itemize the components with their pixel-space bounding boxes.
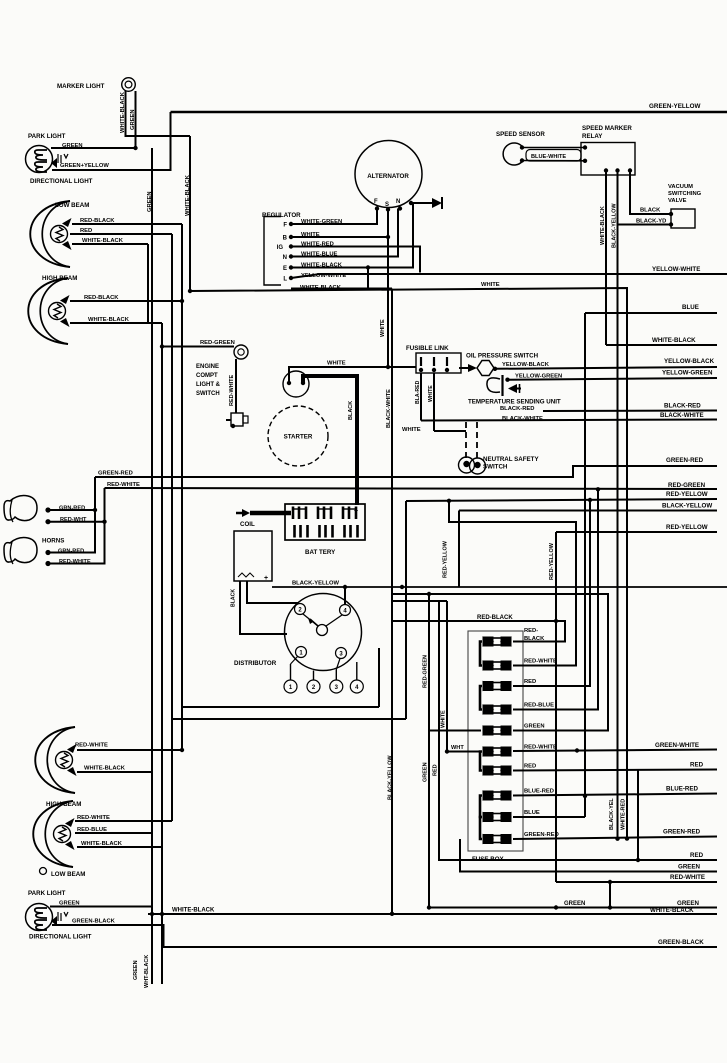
node solenoid t1 xyxy=(287,381,291,385)
node f4 junction xyxy=(596,487,600,491)
node black-yellow junction 345 xyxy=(343,585,347,589)
svg-text:SWITCHING: SWITCHING xyxy=(668,191,702,197)
node alternator N xyxy=(398,206,402,210)
fuse F5 xyxy=(483,726,493,735)
node regulator N xyxy=(289,254,293,258)
svg-text:WHITE-BLACK: WHITE-BLACK xyxy=(82,238,124,244)
node horn2 t2 xyxy=(45,561,50,566)
svg-text:RED-GREEN: RED-GREEN xyxy=(423,655,429,688)
oil pressure switch xyxy=(477,361,494,376)
svg-text:WHITE: WHITE xyxy=(327,361,346,367)
svg-text:GREEN-WHITE: GREEN-WHITE xyxy=(655,742,699,749)
svg-text:DIRECTIONAL LIGHT: DIRECTIONAL LIGHT xyxy=(30,178,93,185)
svg-text:RED: RED xyxy=(524,679,536,685)
wire v460 green xyxy=(460,839,717,872)
headlight low beam xyxy=(30,201,70,267)
svg-text:WHT-BLACK: WHT-BLACK xyxy=(144,955,150,988)
svg-text:DISTRIBUTOR: DISTRIBUTOR xyxy=(234,660,277,667)
svg-text:GREEN: GREEN xyxy=(147,191,153,212)
svg-text:WHITE: WHITE xyxy=(380,319,386,337)
wire red-white bl2 xyxy=(75,820,172,822)
node regulator E xyxy=(289,265,293,269)
svg-text:YELLOW-BLACK: YELLOW-BLACK xyxy=(664,358,715,365)
engine compt light xyxy=(234,345,248,359)
node v638 junction xyxy=(636,858,640,862)
wire e-row tie xyxy=(367,268,369,291)
wire coil to distributor 2 xyxy=(247,581,299,603)
node sensor t1 xyxy=(520,145,524,149)
svg-text:BLACK-YELLOW: BLACK-YELLOW xyxy=(388,755,394,800)
wire grn-red horn1 xyxy=(48,509,95,511)
node relay out2 xyxy=(615,168,619,172)
wire dashed nss 2 xyxy=(476,422,478,458)
coil wire thick xyxy=(250,511,291,516)
fuse F9 xyxy=(483,813,493,822)
node black-yellow junction 402 xyxy=(400,585,404,589)
wire bla-red link xyxy=(420,373,422,421)
wire f5 left xyxy=(429,730,481,732)
svg-text:GREEN-RED: GREEN-RED xyxy=(98,471,133,477)
wire green vertical 429 xyxy=(429,594,717,908)
node red-yellow v590 xyxy=(588,498,592,502)
svg-text:HORNS: HORNS xyxy=(42,538,64,545)
wire cap1 xyxy=(290,664,292,680)
svg-text:RED-BLUE: RED-BLUE xyxy=(77,827,107,833)
wire red-black high beam xyxy=(70,300,182,302)
wire black-yel to valve xyxy=(618,224,672,226)
svg-text:VACUUM: VACUUM xyxy=(668,184,693,190)
wire box inner xyxy=(182,706,379,708)
wire v638 xyxy=(637,770,639,860)
svg-text:BLACK-YEL: BLACK-YEL xyxy=(609,798,615,830)
node link t1 xyxy=(419,368,423,372)
wire black-yellow coil bus xyxy=(272,586,727,588)
neutral safety switch xyxy=(459,457,475,473)
wire white-green F xyxy=(291,209,377,225)
fuse F3 xyxy=(483,682,493,691)
wire box outer xyxy=(172,718,406,720)
wire fuse jumper 9-10 xyxy=(480,817,482,839)
wire green bottom xyxy=(50,906,152,908)
svg-text:B: B xyxy=(283,236,288,242)
node solenoid t2 xyxy=(301,381,305,385)
wire f3 stub xyxy=(513,500,590,686)
wire green-black bottom xyxy=(52,925,717,947)
svg-text:RED-YELLOW: RED-YELLOW xyxy=(443,540,449,578)
svg-text:GREEN: GREEN xyxy=(564,901,585,907)
park light lamp bottom xyxy=(26,904,53,931)
svg-text:BLACK-YELLOW: BLACK-YELLOW xyxy=(292,581,340,587)
wire black-yellow relay xyxy=(617,171,619,840)
distributor terminal 4 internal xyxy=(340,605,351,616)
node red-yellow v449 xyxy=(447,499,451,503)
node wb junction 162 xyxy=(160,912,164,916)
svg-text:RED: RED xyxy=(690,762,704,769)
svg-text:LOW BEAM: LOW BEAM xyxy=(51,871,85,878)
node horn junction red-wht xyxy=(102,520,106,524)
node horn junction grn-red xyxy=(93,508,97,512)
svg-text:WHITE-BLACK: WHITE-BLACK xyxy=(600,206,606,245)
svg-text:RED-WHITE: RED-WHITE xyxy=(229,375,235,406)
node valve t2 xyxy=(669,222,673,226)
wire blue bus xyxy=(585,312,717,314)
wire v447 xyxy=(446,601,448,752)
svg-text:SPEED SENSOR: SPEED SENSOR xyxy=(496,131,545,138)
svg-text:ALTERNATOR: ALTERNATOR xyxy=(367,173,409,180)
svg-text:BLACK-RED: BLACK-RED xyxy=(500,406,534,412)
wire red-white switch xyxy=(235,359,237,413)
fusible link box xyxy=(416,353,461,373)
wire box right edge xyxy=(405,501,407,719)
node green 556 xyxy=(554,905,558,909)
svg-text:WHT: WHT xyxy=(451,745,464,751)
wire red-yellow 532 bus xyxy=(556,531,717,533)
wire white-blue N xyxy=(291,209,398,257)
wire distributor 4 up xyxy=(344,587,346,605)
svg-text:STARTER: STARTER xyxy=(284,434,313,441)
wire white-black bl1 xyxy=(77,771,152,773)
cap circle 1 xyxy=(284,680,297,693)
wire f4 stub xyxy=(513,489,598,709)
node oil switch terminal xyxy=(493,367,497,371)
svg-text:WHITE-BLACK: WHITE-BLACK xyxy=(81,841,123,847)
svg-text:YELLOW-WHITE: YELLOW-WHITE xyxy=(652,266,700,273)
wire white-black from marker light xyxy=(126,91,191,136)
wire red-black low beam xyxy=(72,223,182,225)
node horn1 t2 xyxy=(45,519,50,524)
alternator U1 xyxy=(355,141,422,208)
wire h601 xyxy=(392,600,447,602)
svg-text:+: + xyxy=(354,508,358,515)
wire black coil to distributor xyxy=(240,581,287,634)
wire green-yellow from lamp xyxy=(52,112,171,170)
node B junction xyxy=(386,235,390,239)
node link t2 xyxy=(432,368,436,372)
node nss t2 xyxy=(474,462,480,468)
node sensor t2 xyxy=(520,158,524,162)
svg-text:PARK LIGHT: PARK LIGHT xyxy=(28,133,66,140)
wire f6 row xyxy=(447,751,481,753)
svg-text:RED-WHITE: RED-WHITE xyxy=(75,743,108,749)
node nss t1 xyxy=(463,461,469,467)
svg-text:GREEN-BLACK: GREEN-BLACK xyxy=(72,919,116,925)
node green 429 junction xyxy=(427,592,431,596)
svg-text:E: E xyxy=(283,266,287,272)
svg-text:F: F xyxy=(374,199,378,205)
wire cap1 internal xyxy=(291,656,299,664)
wire red-black bus xyxy=(392,621,565,642)
node red-green tap xyxy=(160,344,164,348)
fuse F7 xyxy=(483,766,493,775)
svg-text:+: + xyxy=(264,575,268,582)
svg-text:LIGHT &: LIGHT & xyxy=(196,382,221,388)
svg-text:BLUE-WHITE: BLUE-WHITE xyxy=(531,154,566,160)
wire f10 stub xyxy=(513,837,717,840)
svg-text:WHITE-BLACK: WHITE-BLACK xyxy=(185,174,191,216)
svg-text:GREEN-RED: GREEN-RED xyxy=(666,457,704,464)
node alternator F xyxy=(375,206,379,210)
wire green from marker light xyxy=(135,91,137,148)
svg-text:GREEN: GREEN xyxy=(133,960,139,980)
svg-text:WHITE-BLACK: WHITE-BLACK xyxy=(650,907,694,914)
node regulator IG xyxy=(289,244,293,248)
svg-text:REGULATOR: REGULATOR xyxy=(262,212,301,219)
svg-text:N: N xyxy=(396,199,400,205)
svg-text:F: F xyxy=(283,223,287,229)
svg-text:SWITCH: SWITCH xyxy=(196,391,220,397)
svg-text:GREEN-RED: GREEN-RED xyxy=(524,832,559,838)
wire green park light xyxy=(51,147,136,149)
svg-text:BLUE: BLUE xyxy=(682,304,699,311)
svg-text:WHITE-BLACK: WHITE-BLACK xyxy=(172,908,215,914)
svg-text:RED-YELLOW: RED-YELLOW xyxy=(666,491,708,498)
node regulator B xyxy=(289,235,293,239)
svg-text:BLA-RED: BLA-RED xyxy=(415,380,421,404)
svg-text:RED: RED xyxy=(524,764,536,770)
wire rotor to 2 xyxy=(303,614,318,626)
wire red-white bl1 xyxy=(77,749,182,751)
wire white-black link low-high xyxy=(147,244,149,323)
svg-text:RED-BLUE: RED-BLUE xyxy=(524,703,554,709)
svg-text:TEMPERATURE SENDING UNIT: TEMPERATURE SENDING UNIT xyxy=(468,399,561,406)
wire f8 stub xyxy=(513,794,717,796)
wire white vertical S xyxy=(387,210,389,368)
distributor body xyxy=(285,594,362,671)
svg-text:WHITE: WHITE xyxy=(402,427,421,433)
wire white-black low beam xyxy=(72,243,148,245)
svg-text:GREEN-RED: GREEN-RED xyxy=(663,829,701,836)
node f6 left xyxy=(445,749,449,753)
svg-text:GREEN: GREEN xyxy=(677,900,700,907)
wire grn-red horns xyxy=(48,477,95,553)
wire red-yellow bus xyxy=(406,499,717,501)
distributor terminal 1 internal xyxy=(296,647,307,658)
svg-text:RED-GREEN: RED-GREEN xyxy=(200,340,235,346)
svg-text:NEUTRAL SAFETY: NEUTRAL SAFETY xyxy=(483,456,539,463)
node junction green/park xyxy=(133,146,137,150)
node green junction 429b xyxy=(427,905,431,909)
svg-text:RED-GREEN: RED-GREEN xyxy=(668,482,706,489)
wire red-wht horn1 xyxy=(48,521,105,523)
wire v439 xyxy=(439,601,717,860)
wire cap2 xyxy=(313,671,315,681)
svg-text:RED-WHITE: RED-WHITE xyxy=(524,745,557,751)
svg-text:BLACK: BLACK xyxy=(231,589,237,607)
svg-text:BLACK: BLACK xyxy=(348,401,354,420)
wire black-white bus xyxy=(421,420,717,421)
wire white bus xyxy=(190,288,627,839)
wire yellow-white L bus xyxy=(291,274,727,278)
speed sensor xyxy=(503,143,523,165)
distributor terminal 3 internal xyxy=(336,648,347,659)
node E junction xyxy=(366,265,370,269)
svg-text:IG: IG xyxy=(277,245,284,251)
node blue crossing f8 xyxy=(583,794,587,798)
svg-text:BLACK-YELLOW: BLACK-YELLOW xyxy=(612,203,618,248)
node relay in1 xyxy=(583,145,587,149)
node relay out1 xyxy=(604,168,608,172)
blue-white cable box xyxy=(526,150,581,162)
svg-text:RED-YELLOW: RED-YELLOW xyxy=(666,524,708,531)
temperature sending unit xyxy=(487,378,500,393)
node v610 top xyxy=(608,880,612,884)
svg-text:RED-WHITE: RED-WHITE xyxy=(670,874,705,881)
svg-text:ENGINE: ENGINE xyxy=(196,364,219,370)
distributor terminal 2 internal xyxy=(295,604,306,615)
wire sensor to relay top xyxy=(522,147,585,149)
wire red-blue bl2 xyxy=(75,832,152,834)
wire v459 xyxy=(458,511,460,588)
node red-black junction xyxy=(554,619,558,623)
park light lamp xyxy=(26,146,53,173)
node link t3 xyxy=(445,368,449,372)
wire box inner right xyxy=(378,648,380,707)
node horn1 t1 xyxy=(45,507,50,512)
wire yellow-black bus xyxy=(494,367,717,369)
node temp unit terminal xyxy=(505,378,509,382)
headlight bottom low xyxy=(35,727,75,793)
svg-text:SPEED MARKER: SPEED MARKER xyxy=(582,125,632,132)
wire red-white bus xyxy=(105,488,718,489)
fuse F4 xyxy=(483,705,493,714)
svg-text:COIL: COIL xyxy=(240,521,255,528)
svg-text:L: L xyxy=(283,277,287,283)
svg-text:WHITE-BLACK: WHITE-BLACK xyxy=(88,317,130,323)
wire white-black vertical to white line xyxy=(189,136,191,291)
svg-text:S: S xyxy=(385,202,389,208)
svg-text:RED: RED xyxy=(690,852,704,859)
node alternator S xyxy=(386,207,390,211)
starter motor xyxy=(268,406,328,466)
wire yellow-green bus xyxy=(508,378,718,380)
node f10 junction 2 xyxy=(625,836,629,840)
cap circle 3 xyxy=(330,680,343,693)
speed marker relay box xyxy=(581,143,635,176)
wire v556 xyxy=(555,532,557,882)
node white line junction xyxy=(188,289,192,293)
wire sensor to relay bottom xyxy=(522,160,585,162)
wire white-black high beam xyxy=(70,322,162,324)
horn 1 xyxy=(4,496,37,521)
svg-text:BLACK-WHITE: BLACK-WHITE xyxy=(660,412,704,419)
svg-text:GREEN: GREEN xyxy=(524,724,545,730)
wire red vertical left xyxy=(171,234,173,821)
wire black-white vertical xyxy=(391,289,393,914)
wire white-black regulator bottom xyxy=(291,288,392,290)
cap circle 4 xyxy=(350,680,363,693)
wire white link xyxy=(433,373,435,431)
svg-text:COMPT: COMPT xyxy=(196,373,218,379)
svg-text:RED-BLACK: RED-BLACK xyxy=(80,218,115,224)
svg-text:WHITE: WHITE xyxy=(441,710,447,728)
svg-text:BLACK-RED: BLACK-RED xyxy=(664,403,701,410)
svg-text:BLUE-RED: BLUE-RED xyxy=(666,786,698,793)
wire f6 stub right xyxy=(513,750,717,752)
svg-text:WHITE-BLACK: WHITE-BLACK xyxy=(120,91,126,133)
svg-text:YELLOW-GREEN: YELLOW-GREEN xyxy=(662,370,713,377)
svg-text:VALVE: VALVE xyxy=(668,198,687,204)
svg-text:SWITCH: SWITCH xyxy=(483,464,508,471)
horn 2 xyxy=(4,538,37,563)
svg-text:MARKER LIGHT: MARKER LIGHT xyxy=(57,83,105,90)
wire fuse jumper 8-9 xyxy=(480,796,482,818)
fuse F1 xyxy=(483,637,493,646)
wire white B xyxy=(291,236,388,238)
coil body xyxy=(234,531,272,581)
wire red-wht horns xyxy=(48,488,105,564)
svg-text:YELLOW-BLACK: YELLOW-BLACK xyxy=(502,362,550,368)
wire white-black E xyxy=(291,203,413,268)
node f6 right junction xyxy=(575,748,579,752)
fuse F8 xyxy=(483,791,493,800)
wire white-red IG xyxy=(291,247,420,273)
node relay out3 xyxy=(628,168,632,172)
node wb junction 152 xyxy=(150,912,154,916)
wire dashed nss 1 xyxy=(465,422,467,458)
battery xyxy=(285,504,365,540)
wire blue vertical xyxy=(584,313,586,817)
wire cap4 xyxy=(356,662,358,680)
svg-text:WHITE-BLACK: WHITE-BLACK xyxy=(84,766,126,772)
wire f7 stub xyxy=(513,770,717,771)
wire black-yellow bus2 xyxy=(459,510,717,512)
svg-text:BLACK: BLACK xyxy=(640,208,661,214)
svg-text:WHITE-RED: WHITE-RED xyxy=(621,799,627,830)
wire black-red bus xyxy=(543,410,717,413)
svg-text:GREEN: GREEN xyxy=(130,109,136,130)
svg-text:PARK LIGHT: PARK LIGHT xyxy=(28,890,66,897)
wire fuse jumper 6-7 xyxy=(480,752,482,771)
ground symbol xyxy=(432,198,442,208)
node white tee xyxy=(386,365,390,369)
engine compt switch xyxy=(231,413,243,426)
wire white-black bottom bus xyxy=(148,913,717,915)
wire white-black vertical left xyxy=(161,323,163,984)
svg-text:GREEN-YELLOW: GREEN-YELLOW xyxy=(649,103,700,110)
node red-white bl1 xyxy=(180,748,184,752)
fuse F2 xyxy=(483,661,493,670)
wire black starter thick xyxy=(303,376,357,505)
svg-text:N: N xyxy=(283,255,287,261)
svg-text:BLACK-YD: BLACK-YD xyxy=(636,219,666,225)
lamp tip glyph xyxy=(40,868,47,875)
node horn2 t1 xyxy=(45,550,50,555)
wire alternator ground xyxy=(410,202,440,204)
svg-text:RED-WHITE: RED-WHITE xyxy=(107,482,140,488)
wire f5 stub xyxy=(392,594,608,731)
node red-black junction xyxy=(180,299,184,303)
svg-text:WHITE: WHITE xyxy=(481,282,500,288)
wire cap3 internal xyxy=(336,659,340,670)
regulator bracket xyxy=(264,217,281,286)
node f10 junction 1 xyxy=(615,837,619,841)
fuse F10 xyxy=(483,835,493,844)
headlight bottom high xyxy=(33,801,73,867)
headlight high beam xyxy=(28,278,68,344)
wire f2 stub xyxy=(449,501,576,666)
svg-text:RELAY: RELAY xyxy=(582,133,603,140)
wire fuse jumper 3-4 xyxy=(480,686,482,710)
node regulator L xyxy=(289,276,293,280)
cap circle 2 xyxy=(307,680,320,693)
wire green vertical left xyxy=(151,148,153,984)
wire green-red bus xyxy=(95,466,717,477)
wire white to nss xyxy=(434,430,466,432)
node switch bottom xyxy=(231,424,235,428)
fuse box outline xyxy=(468,631,523,851)
svg-text:FUSIBLE LINK: FUSIBLE LINK xyxy=(406,345,449,352)
wire black to valve xyxy=(630,171,671,215)
